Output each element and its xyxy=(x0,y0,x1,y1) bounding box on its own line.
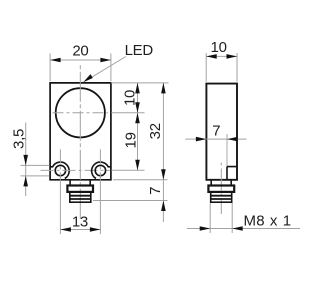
dim 32 arrows xyxy=(161,83,166,180)
dim 3,5 arrows xyxy=(23,155,28,187)
M8 arrows xyxy=(200,226,243,231)
side connector thread lines xyxy=(211,196,232,199)
circle horizontal centerline xyxy=(53,112,109,114)
dim 13 arrows xyxy=(60,227,100,232)
ext line body bottom right xyxy=(113,179,167,181)
front connector thread lines xyxy=(70,196,91,199)
dim 20 extension lines xyxy=(50,54,111,82)
dim 10 side arrows xyxy=(206,54,237,59)
ext lines hole diameter left xyxy=(21,165,50,176)
dim 32-7 line xyxy=(162,83,164,222)
left mounting hole xyxy=(55,165,65,175)
sensor body front view outline xyxy=(50,83,111,180)
side connector flange xyxy=(208,186,234,192)
dim 7 side arrows xyxy=(196,137,238,142)
sensing face circle xyxy=(56,88,105,137)
M8 dim line xyxy=(187,228,300,230)
dim 7 arrow xyxy=(161,201,166,212)
svg-text:20: 20 xyxy=(72,43,88,60)
svg-text:LED: LED xyxy=(125,42,154,59)
right hole centerlines xyxy=(60,150,100,180)
sensor body side view outline xyxy=(206,84,237,180)
side view inner edge line xyxy=(226,134,228,167)
front connector neck xyxy=(70,180,90,186)
svg-text:10: 10 xyxy=(122,90,139,106)
svg-text:13: 13 xyxy=(72,214,88,231)
dim 19 arrows xyxy=(135,113,140,171)
svg-text:7: 7 xyxy=(147,187,164,195)
dim 10 side ext lines xyxy=(206,53,237,82)
LED leader arrow xyxy=(83,74,93,82)
left hole boss xyxy=(50,162,69,178)
front connector flange xyxy=(67,186,93,192)
M8 ext lines xyxy=(210,203,232,233)
ext line body top right xyxy=(111,82,169,84)
svg-text:M8 x 1: M8 x 1 xyxy=(244,213,292,230)
side connector neck xyxy=(211,180,231,186)
svg-text:3,5: 3,5 xyxy=(10,129,27,149)
right hole boss xyxy=(92,162,111,178)
dim 7 side line xyxy=(185,138,246,140)
side connector thread xyxy=(211,192,232,202)
dim 10-19 line xyxy=(137,83,139,170)
front view vertical centerline xyxy=(79,65,81,219)
ext line circle center right xyxy=(111,112,144,114)
dim 3,5 line xyxy=(25,123,27,196)
svg-text:19: 19 xyxy=(122,132,139,148)
dim 20 arrows xyxy=(50,58,111,63)
dim 10 side line xyxy=(206,55,237,57)
right mounting hole xyxy=(95,165,105,175)
dim 20 line xyxy=(50,59,111,61)
ext line connector bottom right xyxy=(93,200,168,202)
svg-text:32: 32 xyxy=(147,123,164,139)
svg-text:7: 7 xyxy=(212,123,220,140)
side view corner notch xyxy=(227,167,237,180)
left hole centerlines xyxy=(41,169,110,171)
svg-text:10: 10 xyxy=(211,39,227,56)
LED leader line xyxy=(90,57,126,79)
front connector thread xyxy=(70,192,91,202)
side view vertical centerline xyxy=(220,163,222,215)
ext line hole center right xyxy=(111,169,144,171)
dim 10 arrows xyxy=(135,83,140,113)
dim 13 line xyxy=(60,229,100,231)
